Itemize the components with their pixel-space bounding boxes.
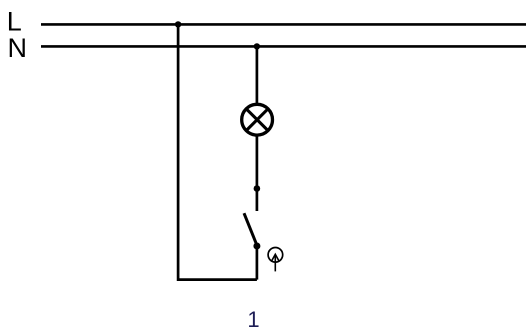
svg-text:L: L [7, 7, 22, 37]
wire from N rail down to lamp [256, 46, 259, 104]
switch S1 blade [244, 213, 257, 246]
wire N rail [41, 45, 526, 48]
svg-text:1: 1 [247, 307, 259, 332]
svg-text:N: N [8, 33, 28, 63]
switch actuator arrow head [271, 254, 279, 261]
wire from L down to bottom [178, 24, 257, 279]
lamp E1 cross stroke 2 [246, 109, 268, 131]
switch terminal dot (upper) [254, 185, 261, 192]
wire from lamp down to switch fixed contact [256, 136, 259, 212]
wire L rail [41, 23, 526, 26]
lamp E1 circle [242, 104, 273, 135]
wire from switch down to bottom rail [256, 246, 259, 280]
junction dot on L rail [175, 21, 181, 27]
lamp E1 cross stroke 1 [246, 109, 268, 131]
junction dot on N rail [254, 43, 260, 49]
switch actuator arrow stem [274, 256, 276, 271]
switch actuator circle [268, 248, 283, 263]
switch terminal dot (lower) [253, 243, 260, 250]
